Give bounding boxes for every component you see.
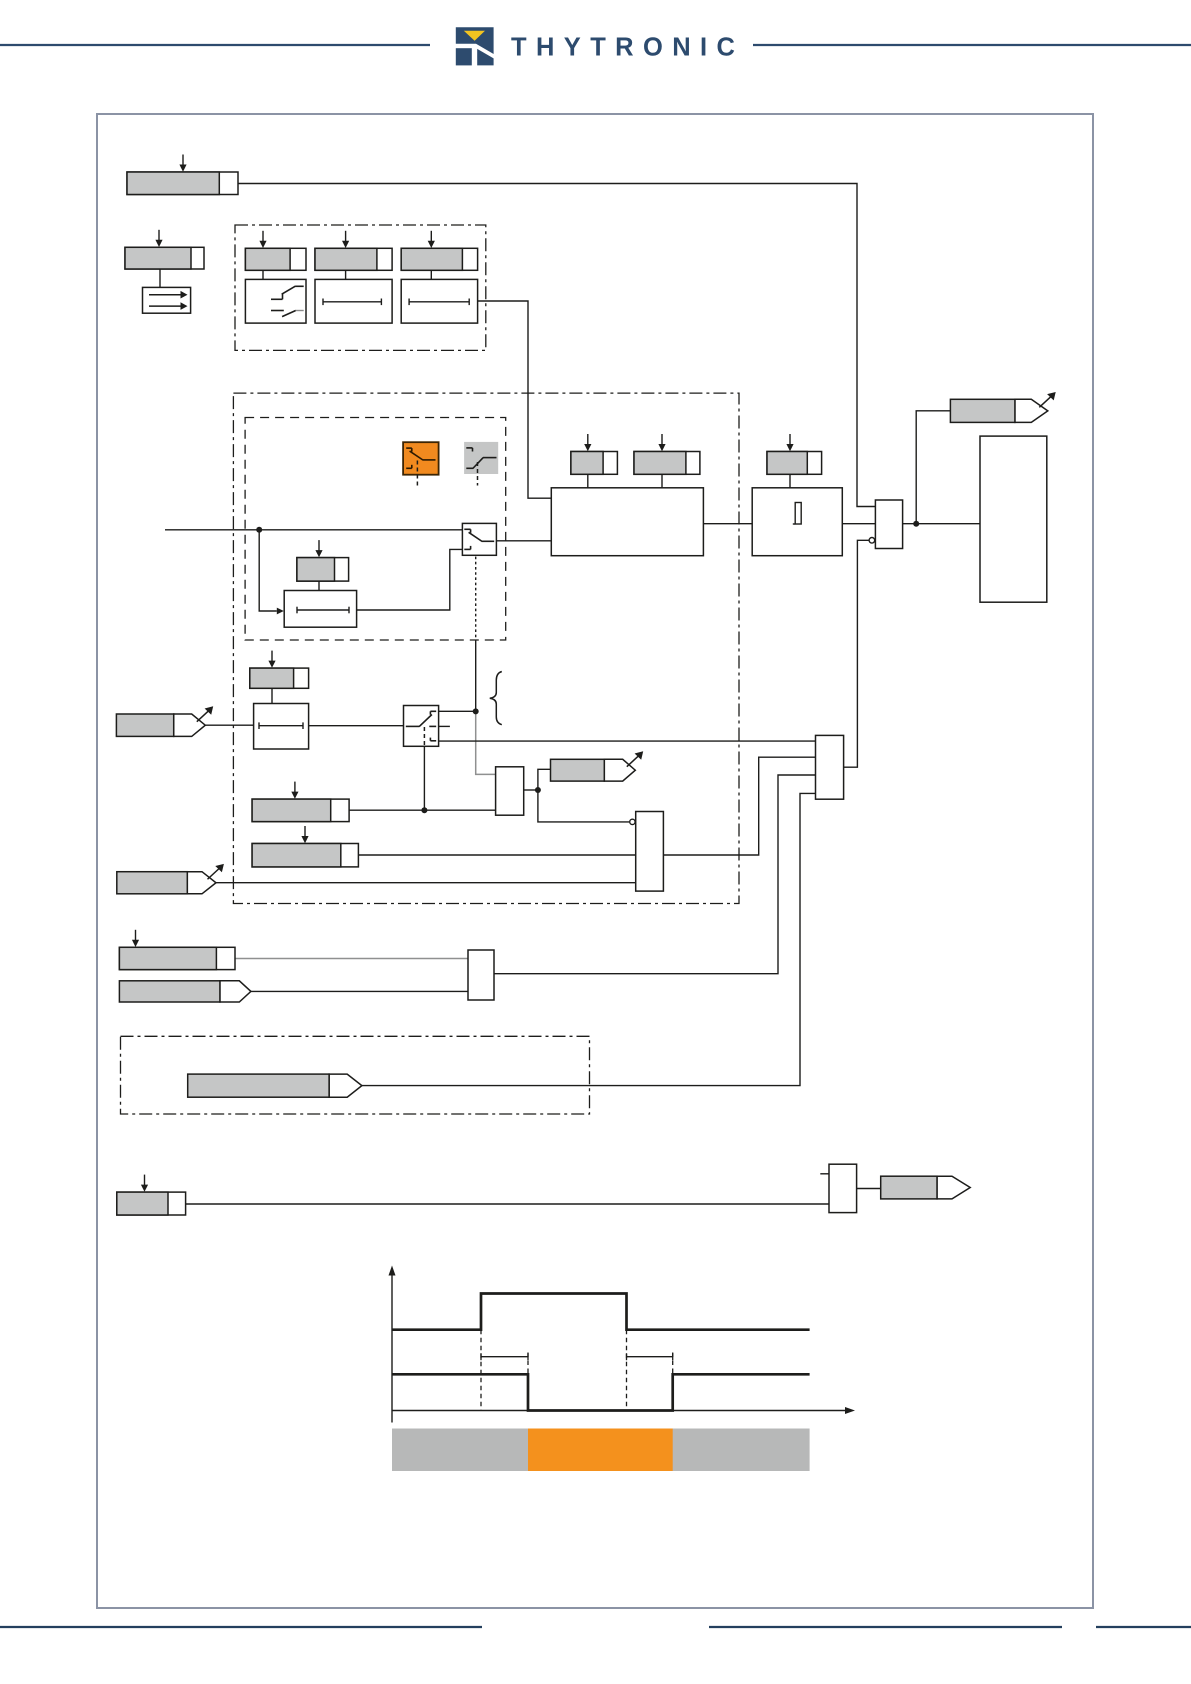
svg-text:THYTRONIC: THYTRONIC — [511, 34, 744, 62]
